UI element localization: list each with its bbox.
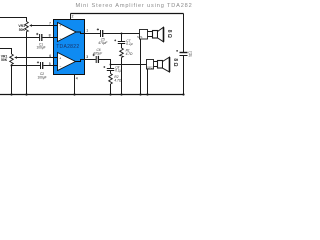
wire C6 to step (99, 60, 111, 65)
svg-text:0.1μ: 0.1μ (115, 69, 121, 73)
wire C1 to pin 8 (42, 37, 53, 39)
svg-text:3: 3 (86, 55, 88, 59)
wire R2 to ground rail (110, 84, 112, 95)
svg-text:6: 6 (49, 54, 51, 58)
wire VR1b bottom to ground rail (11, 65, 13, 95)
speaker LS2 (158, 61, 163, 69)
wire input right channel (0, 49, 12, 55)
ground rail (0, 94, 184, 96)
wire ground line ch1 (0, 37, 39, 39)
resistor R2 (109, 74, 113, 85)
svg-text:470μF: 470μF (98, 41, 108, 45)
svg-text:7: 7 (49, 21, 51, 25)
junction dot pot2 ground (11, 65, 13, 67)
node dot output2/zobel tap (110, 64, 112, 66)
svg-text:−: − (60, 36, 62, 40)
wire zobel2 down (110, 65, 112, 69)
speaker LS2 connector (147, 60, 154, 70)
capacitor C8 (107, 68, 114, 70)
svg-text:4.7Ω: 4.7Ω (126, 52, 133, 56)
wire wiper1 to pin 7 (32, 25, 54, 27)
wire LS2 return to ground (147, 69, 149, 95)
wire pin 4 to ground rail (74, 75, 76, 95)
wire C7 to R1 (121, 44, 123, 49)
svg-text:+: + (59, 24, 61, 28)
wire ground line ch2 (12, 65, 41, 67)
svg-text:4: 4 (76, 77, 78, 81)
wire R1 to ground rail (121, 58, 123, 95)
wiper arrow VR1b (14, 56, 17, 59)
potentiometer VR1b (10, 54, 14, 65)
potentiometer VR1a (25, 22, 29, 32)
svg-text:8: 8 (49, 34, 51, 38)
wire output 1 (85, 33, 101, 35)
wire V+ rail (71, 13, 184, 15)
node dot output1/zobel tap (121, 33, 123, 35)
svg-text:100μF: 100μF (37, 76, 46, 80)
wire C8 to R2 (110, 71, 112, 74)
svg-text:4.7Ω: 4.7Ω (114, 78, 121, 82)
wire C5 to speaker LS1 (103, 33, 139, 35)
wire pin 2 to V+ rail (70, 14, 72, 20)
svg-text:TDA2822: TDA2822 (56, 44, 79, 50)
wire LS1 return to ground (140, 39, 142, 95)
svg-text:50K: 50K (1, 58, 8, 62)
svg-text:100μF: 100μF (36, 46, 45, 50)
capacitor C5 (100, 30, 102, 37)
capacitor C2 (40, 62, 42, 69)
wire input left channel (0, 18, 27, 22)
svg-text:8Ω: 8Ω (172, 58, 178, 67)
svg-text:0.1μ: 0.1μ (126, 42, 132, 46)
junction dots on ground rail (10, 93, 12, 95)
svg-text:2: 2 (72, 14, 74, 18)
capacitor C6 (95, 56, 97, 63)
svg-text:1: 1 (86, 28, 88, 32)
wire output 2 (85, 59, 96, 61)
svg-text:470μF: 470μF (93, 51, 103, 55)
wiper arrow VR1a (29, 24, 32, 27)
wire zobel1 down (121, 34, 123, 42)
op-amp A2 (54, 58, 58, 66)
capacitor C3 (180, 52, 188, 54)
capacitor C1 (39, 34, 41, 41)
speaker LS1 (153, 31, 158, 39)
svg-text:100μ: 100μ (188, 54, 192, 58)
capacitor C7 (118, 41, 125, 43)
wire C3 to ground rail (183, 56, 185, 95)
resistor R1 (120, 48, 124, 58)
wire wiper2 to pin 6 (17, 57, 54, 59)
wire V+ down right side (183, 14, 185, 53)
svg-text:50K: 50K (19, 28, 26, 32)
svg-text:−: − (60, 64, 62, 68)
wire to speaker LS2 (111, 64, 147, 66)
wire VR1a bottom to ground rail (26, 32, 28, 95)
op-amp A1 (54, 26, 58, 38)
wire C2 to pin 5 (43, 65, 53, 67)
svg-text:8Ω: 8Ω (166, 30, 172, 39)
svg-text:Mini Stereo Amplifier using TD: Mini Stereo Amplifier using TDA2822 (76, 3, 193, 9)
svg-text:5: 5 (49, 62, 51, 66)
speaker LS1 connector (140, 30, 148, 40)
svg-text:SP1: SP1 (137, 35, 143, 39)
IC U1 TDA2822 body (54, 20, 85, 75)
svg-text:+: + (59, 56, 61, 60)
